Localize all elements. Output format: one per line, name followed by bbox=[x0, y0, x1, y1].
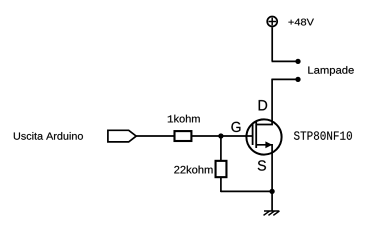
node source junction bbox=[269, 189, 274, 194]
label 1kohm bbox=[168, 115, 200, 123]
input connector arrow bbox=[108, 130, 136, 142]
resistor R1 1kohm bbox=[175, 131, 192, 141]
ground bbox=[264, 211, 279, 215]
pin label D bbox=[259, 100, 267, 110]
wire to lamp terminal top bbox=[272, 60, 298, 62]
pin label S bbox=[258, 160, 266, 170]
wire R2 bottom down bbox=[220, 177, 222, 192]
pin label G bbox=[231, 122, 240, 132]
wire junction to R2 bbox=[220, 136, 222, 161]
wire R2 to source node bbox=[221, 190, 272, 192]
transistor Q1 STP80NF10 bbox=[246, 119, 281, 154]
label STP80NF10 bbox=[294, 131, 352, 139]
resistor R2 22kohm bbox=[216, 161, 227, 177]
node lamp terminal top bbox=[295, 59, 300, 64]
wire supply down bbox=[271, 27, 273, 61]
node gate junction bbox=[218, 133, 223, 138]
wire source lead bbox=[256, 145, 272, 192]
wire source node to ground bbox=[271, 191, 273, 211]
wire from lamp terminal bottom bbox=[272, 78, 298, 80]
label Lampade bbox=[308, 66, 353, 76]
label 22kohm bbox=[174, 166, 212, 174]
label Uscita Arduino bbox=[14, 132, 83, 140]
wire connector to R1 bbox=[136, 135, 174, 137]
wire R1 to gate bbox=[192, 135, 253, 137]
supply terminal +48V bbox=[267, 17, 277, 27]
wire drain lead bbox=[256, 79, 272, 125]
label +48V bbox=[288, 19, 313, 26]
node lamp terminal bottom bbox=[295, 77, 300, 82]
